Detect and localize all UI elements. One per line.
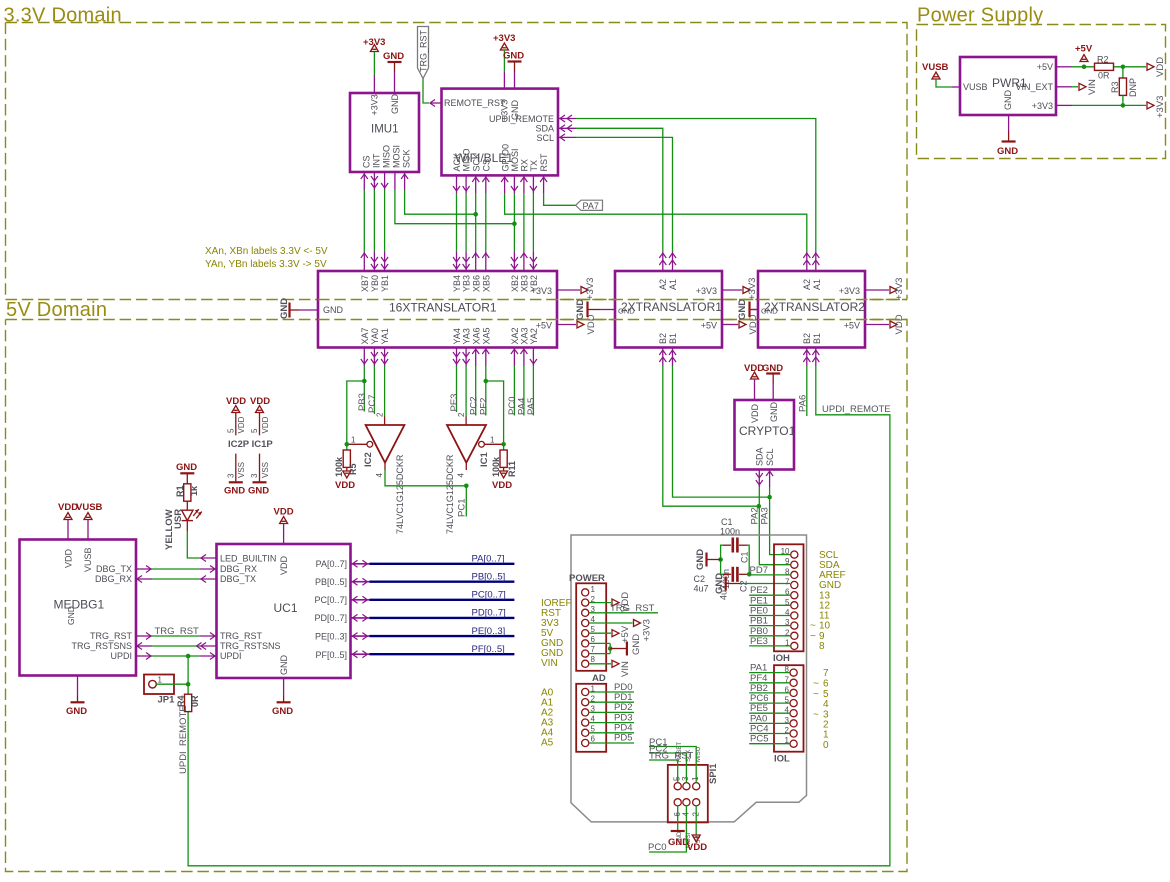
bus PC[0..7]	[369, 599, 514, 601]
pin IOL.3	[785, 716, 798, 727]
svg-text:DBG_TX: DBG_TX	[96, 564, 132, 574]
svg-text:YA4: YA4	[452, 328, 462, 344]
svg-text:8: 8	[819, 641, 825, 652]
wire GND pins 6,7	[589, 643, 610, 653]
svg-text:+5V: +5V	[1075, 44, 1093, 55]
pin WIFI.MISO stub	[463, 175, 470, 193]
svg-text:VDD: VDD	[687, 842, 707, 853]
supply VDD above MEDBG1	[58, 502, 78, 520]
wire JP1 to UPDI_REMOTE	[156, 683, 188, 685]
svg-text:4u7: 4u7	[694, 584, 709, 594]
labels IOL right	[813, 668, 829, 751]
svg-text:~: ~	[813, 689, 819, 700]
svg-text:PC0: PC0	[648, 842, 666, 853]
svg-text:4: 4	[457, 473, 466, 478]
pin IC2.4 output	[384, 463, 386, 470]
svg-text:+3V3: +3V3	[696, 286, 717, 296]
svg-text:PD[0..7]: PD[0..7]	[472, 608, 506, 619]
pin PWR1.VUSB stub	[952, 86, 960, 88]
svg-text:+3V3: +3V3	[370, 94, 380, 115]
svg-text:C1: C1	[721, 517, 733, 527]
supply VDD below R5	[335, 468, 355, 492]
wire TRG_RST net	[136, 633, 217, 640]
pin IOH.1	[785, 638, 798, 649]
ground GND below UC1	[272, 696, 293, 717]
svg-text:A1: A1	[812, 279, 822, 290]
svg-text:GND: GND	[66, 706, 87, 717]
pin 16XTR.GND stub	[299, 309, 318, 311]
wire IOH PB1	[749, 616, 791, 627]
IC IMU1	[350, 93, 419, 172]
svg-text:CS: CS	[482, 159, 492, 172]
wire AD PD5	[589, 733, 634, 744]
wire WIFI CS net	[485, 193, 487, 252]
svg-text:+3V3: +3V3	[585, 278, 596, 300]
svg-text:VUSB: VUSB	[922, 62, 949, 73]
junction SCK	[473, 212, 478, 217]
wire SDA to 2XTRANSLATOR1 A2	[576, 128, 663, 252]
svg-text:MISO: MISO	[382, 145, 392, 168]
bus PE[0..3]	[369, 635, 514, 637]
pin UC1.GND stub	[283, 678, 285, 696]
svg-text:JP1: JP1	[158, 695, 176, 706]
pin WIFI.RST stub	[540, 175, 547, 193]
supply VDD above CRYPTO1	[744, 363, 764, 379]
bus pin PC[0..7]	[351, 596, 370, 603]
svg-text:XAn, XBn labels 3.3V <- 5V: XAn, XBn labels 3.3V <- 5V	[205, 246, 328, 257]
svg-text:A2: A2	[802, 279, 812, 290]
pin WIFI.GPIO0 stub	[501, 175, 508, 193]
svg-text:GND: GND	[714, 573, 725, 594]
wire PF2 to IC1 pin1	[486, 381, 504, 444]
svg-text:PE3: PE3	[750, 636, 768, 647]
resistor R1	[175, 484, 199, 501]
svg-text:UC1: UC1	[274, 601, 298, 615]
bus PA[0..7]	[369, 563, 514, 565]
ground VSS of IC2P	[224, 454, 246, 497]
pin IOH.5	[785, 598, 798, 609]
svg-text:GND: GND	[272, 706, 293, 717]
svg-text:GND: GND	[224, 486, 245, 497]
pin 16XTR.+3V3 stub	[557, 289, 580, 291]
wire AD PD4	[589, 723, 634, 734]
pin IMU1.CS stub	[361, 172, 368, 190]
flag PA7	[576, 200, 603, 211]
svg-text:GND: GND	[618, 307, 635, 316]
capacitor C2	[694, 567, 749, 600]
wire WIFI MISO net	[465, 193, 467, 252]
svg-text:CS: CS	[362, 155, 372, 168]
pin IOL.8	[785, 665, 798, 676]
pin IC2.1 enable wire	[347, 443, 367, 445]
svg-text:PD[0..7]: PD[0..7]	[314, 613, 347, 623]
supply VIN arrow right	[1072, 79, 1098, 95]
wire IOH PE3	[749, 636, 791, 647]
svg-text:0: 0	[823, 740, 829, 751]
svg-text:PB[0..5]: PB[0..5]	[315, 577, 347, 587]
wire PC1 tail	[465, 486, 467, 517]
wire PA6 net	[806, 366, 808, 416]
pin PWR1.VIN_EXT stub	[1056, 86, 1072, 88]
wire MISO net	[384, 190, 386, 252]
bus PF[0..5]	[369, 653, 514, 655]
svg-text:1: 1	[591, 585, 596, 594]
svg-text:YB1: YB1	[380, 275, 390, 292]
svg-text:GND: GND	[390, 94, 400, 115]
supply +3V3 arrow right of 16XTR	[581, 278, 596, 300]
pin WIFI.REMOTE_RST stub with arrow	[430, 100, 442, 107]
junction PA3	[767, 495, 772, 500]
pin IMU1.MISO stub	[381, 172, 388, 190]
node 5V Domain frame	[6, 320, 908, 872]
svg-text:+3V3: +3V3	[894, 278, 905, 300]
svg-text:PC5: PC5	[750, 734, 768, 745]
bus pin PB[0..5]	[351, 578, 370, 585]
wire RST / TRG_RST	[589, 603, 658, 614]
ground GND of caps	[695, 549, 721, 570]
pin POWER.5	[582, 625, 596, 637]
svg-text:6: 6	[823, 679, 829, 690]
labels AD left	[541, 688, 554, 749]
svg-text:+3V3: +3V3	[1155, 96, 1166, 118]
resistor R4	[176, 694, 200, 711]
svg-text:GND: GND	[323, 305, 344, 315]
svg-text:3: 3	[227, 473, 236, 478]
svg-text:GND: GND	[631, 634, 642, 655]
wire IOREF to VDD	[589, 592, 631, 612]
wire UPDI_REMOTE net (long loop)	[188, 366, 890, 866]
svg-text:C2: C2	[739, 580, 749, 592]
supply VDD below R11	[492, 468, 512, 492]
svg-text:A5: A5	[541, 738, 554, 749]
IC 16XTRANSLATOR1	[318, 271, 557, 348]
ground GND between 16XTR and 2XTR1	[575, 299, 600, 320]
wire UPDI_REMOTE branch down	[187, 656, 189, 694]
wire SCK net to junction	[405, 190, 476, 214]
wire IOL PA1	[749, 663, 790, 674]
svg-text:+5V: +5V	[844, 321, 860, 331]
wire to IC2 input	[384, 366, 386, 417]
wire PC1 to SPI1.1	[649, 747, 696, 783]
svg-text:4: 4	[375, 473, 384, 478]
pin IOH.2	[785, 628, 798, 639]
IC UC1	[217, 544, 351, 678]
wire caps left rail	[721, 545, 723, 574]
supply VDD above UC1	[274, 507, 294, 524]
wire SPI1.2 to VDD	[695, 806, 697, 835]
svg-text:VSS: VSS	[237, 462, 246, 478]
svg-text:DBG_RX: DBG_RX	[220, 564, 257, 574]
wire TRG_RSTSNS net	[136, 643, 217, 650]
wire UPDI_REMOTE to 2XTRANSLATOR2 A1	[576, 119, 816, 253]
svg-text:5: 5	[250, 428, 259, 433]
pin 2XTR1.+3V3 stub	[722, 289, 742, 291]
wire IOL PA0	[749, 713, 790, 724]
supply VDD arrow right	[1147, 57, 1166, 77]
wire PA2 net from B2	[663, 366, 759, 506]
LED YELLOW USR	[164, 501, 202, 550]
svg-text:YB0: YB0	[370, 275, 380, 292]
pin MEDBG1.GND stub	[77, 676, 79, 697]
pin 2XTR2.+3V3 stub	[865, 289, 889, 291]
supply VDD of IC1P	[250, 396, 270, 435]
wire TX net	[532, 193, 534, 252]
supply +3V3 above IMU1	[363, 37, 385, 52]
bus pin PF[0..5]	[351, 651, 370, 658]
pin WIFI.SCK stub	[472, 175, 479, 193]
supply VDD of IC2P	[226, 396, 246, 435]
wire IOL PB2	[749, 683, 790, 694]
pin IMU1.MOSI stub	[394, 172, 396, 190]
svg-text:SCL: SCL	[765, 448, 775, 466]
svg-text:GND: GND	[737, 299, 748, 320]
bus pin PD[0..7]	[351, 614, 370, 621]
pin PWR1.GND stub	[1008, 115, 1010, 131]
pin WIFI.CS stub	[482, 175, 489, 193]
pin POWER.6	[582, 635, 596, 647]
svg-text:YB4: YB4	[452, 275, 462, 292]
svg-text:3: 3	[681, 776, 690, 781]
pin WIFI.TX stub	[530, 175, 537, 193]
junction R2 out	[1121, 65, 1126, 70]
svg-text:6: 6	[591, 635, 596, 644]
svg-text:1: 1	[691, 776, 700, 781]
svg-text:GND: GND	[997, 146, 1018, 157]
pin 16XTR.YB4 stub	[453, 252, 460, 271]
svg-text:A2: A2	[658, 279, 668, 290]
svg-text:VDD: VDD	[237, 416, 246, 433]
svg-text:PD2: PD2	[614, 702, 632, 713]
svg-text:IOL: IOL	[774, 754, 790, 765]
svg-text:GND: GND	[761, 307, 778, 316]
svg-text:VIN: VIN	[620, 661, 631, 677]
supply VUSB symbol	[922, 62, 949, 79]
svg-text:XB5: XB5	[482, 275, 492, 292]
svg-text:VUSB: VUSB	[83, 547, 93, 572]
pin 2XTR1.A1 stub	[669, 252, 676, 271]
svg-text:PC[0..7]: PC[0..7]	[472, 590, 506, 601]
svg-text:PA3: PA3	[760, 507, 771, 524]
pin CRYPTO1.SCL stub	[766, 470, 773, 488]
svg-text:1: 1	[158, 676, 163, 685]
junction JP1 wire	[186, 682, 191, 687]
IC 2XTRANSLATOR2	[758, 271, 865, 348]
pin 2XTR1.B2 stub	[659, 348, 666, 367]
svg-text:TRG_RSTSNS: TRG_RSTSNS	[71, 641, 132, 651]
svg-text:VDD: VDD	[261, 416, 270, 433]
svg-text:100k: 100k	[491, 456, 501, 477]
svg-text:100n: 100n	[720, 527, 740, 537]
svg-text:VIN: VIN	[541, 658, 558, 669]
svg-text:GND: GND	[1003, 90, 1013, 111]
ground GND below MEDBG1	[66, 696, 87, 717]
svg-text:GND: GND	[383, 51, 404, 62]
svg-text:XB6: XB6	[472, 275, 482, 292]
pin WIFI.GND stub	[514, 72, 516, 89]
svg-text:PC[0..7]: PC[0..7]	[314, 595, 347, 605]
labels POWER left	[541, 598, 572, 669]
svg-text:PA5: PA5	[526, 398, 537, 415]
pin IOH.3	[785, 618, 798, 629]
svg-text:USR: USR	[173, 509, 184, 529]
svg-text:B1: B1	[812, 333, 822, 344]
svg-text:PE3: PE3	[449, 394, 460, 412]
svg-text:+3V3: +3V3	[839, 286, 860, 296]
svg-text:7: 7	[591, 645, 596, 654]
svg-text:XB3: XB3	[520, 275, 530, 292]
svg-text:SCL: SCL	[536, 133, 554, 143]
pin 2XTR1.B1 stub	[669, 348, 676, 367]
svg-text:VIN: VIN	[1087, 79, 1098, 95]
wire ACK net	[456, 193, 458, 252]
pin IOH.7	[785, 578, 798, 589]
junction PB3 to IC2 enable	[362, 379, 367, 384]
svg-text:IC1: IC1	[479, 452, 490, 468]
svg-text:XA7: XA7	[360, 327, 370, 344]
svg-text:3.3V Domain: 3.3V Domain	[4, 5, 122, 27]
svg-text:SPI1: SPI1	[708, 763, 719, 784]
svg-text:A1: A1	[668, 279, 678, 290]
domain dashes through translator row	[318, 300, 907, 320]
svg-text:RX: RX	[520, 159, 530, 172]
pin POWER.1	[582, 585, 596, 596]
pin CRYPTO1.SDA stub	[756, 470, 763, 488]
svg-text:3: 3	[250, 473, 259, 478]
ground GND of POWER header	[610, 634, 642, 656]
pin PWR1.+3V3 stub	[1056, 104, 1072, 106]
svg-text:C1: C1	[740, 551, 750, 563]
svg-text:YA3: YA3	[462, 328, 472, 344]
wire +3V3 to IMU1	[373, 52, 375, 76]
junction PA2	[757, 504, 762, 509]
pin AD.3	[582, 705, 596, 717]
svg-text:GND: GND	[279, 655, 289, 676]
bus pin PA[0..7]	[351, 560, 370, 567]
svg-text:1: 1	[490, 436, 495, 445]
wire VUSB	[936, 79, 952, 87]
pin 16XTR.XB7 stub	[361, 252, 368, 271]
svg-text:8: 8	[591, 655, 596, 664]
svg-text:GND: GND	[279, 298, 290, 319]
svg-text:DNP: DNP	[1128, 78, 1138, 97]
junction MOSI	[512, 221, 517, 226]
junction PD7	[747, 572, 752, 577]
svg-text:R2: R2	[1097, 55, 1109, 65]
wire AD PD1	[589, 692, 634, 703]
pin 16XTR.XA5 stub	[482, 348, 489, 367]
pin IMU1.INT stub	[371, 172, 378, 190]
pin IC1.4 output	[465, 463, 467, 470]
wire RST to PA7 flag	[544, 193, 576, 205]
svg-text:10: 10	[781, 547, 790, 556]
pin 16XTR.YA0 stub	[371, 348, 378, 367]
svg-text:VDD: VDD	[1155, 57, 1166, 77]
pin IOL.1	[785, 736, 798, 747]
svg-text:R4: R4	[176, 695, 186, 707]
connector POWER	[569, 573, 606, 671]
pin AD.5	[582, 725, 596, 737]
wire SDA/PA2 vertical to IOH	[759, 487, 790, 565]
svg-text:~: ~	[813, 679, 819, 690]
svg-text:GPIO0: GPIO0	[501, 144, 511, 172]
pin IMU1.+3V3 stub	[373, 75, 375, 93]
svg-text:PE[0..3]: PE[0..3]	[472, 626, 506, 637]
bus PD[0..7]	[369, 617, 514, 619]
wire PC1 net from IC2 out to IC1 out	[385, 470, 466, 486]
junction PF2 to IC1 enable	[484, 379, 489, 384]
svg-text:GND: GND	[510, 100, 520, 121]
pin 16XTR.XA2 stub	[511, 348, 518, 367]
wire PA4 net	[523, 366, 525, 416]
wire IOL PC6	[749, 693, 790, 704]
svg-text:6: 6	[591, 735, 596, 744]
svg-text:5: 5	[227, 428, 236, 433]
svg-text:7: 7	[823, 668, 829, 679]
supply VDD arrow right of 2XTR2	[890, 314, 905, 334]
pin 16XTR.XB5 stub	[482, 252, 489, 271]
svg-text:+3V3: +3V3	[747, 278, 758, 300]
svg-text:YB3: YB3	[462, 275, 472, 292]
wire SCL to 2XTRANSLATOR1 A1	[576, 137, 673, 252]
connector SPI1	[668, 763, 719, 823]
wire IOH PE1	[749, 595, 791, 606]
wire WIFI SCK vertical	[475, 193, 477, 252]
junction IC1 enable/R11	[501, 442, 506, 447]
svg-text:+5V: +5V	[701, 321, 717, 331]
svg-text:IOH: IOH	[773, 653, 790, 664]
svg-text:YA1: YA1	[380, 328, 390, 344]
bus pin PE[0..3]	[351, 633, 370, 640]
pin 16XTR.XB3 stub	[520, 252, 527, 271]
svg-text:VDD: VDD	[64, 548, 74, 568]
svg-text:UPDI_REMOTE: UPDI_REMOTE	[822, 404, 891, 415]
svg-text:PC1: PC1	[457, 499, 468, 517]
svg-text:TX: TX	[529, 160, 539, 172]
svg-text:GND: GND	[695, 549, 706, 570]
svg-text:74LVC1G125DCKR: 74LVC1G125DCKR	[395, 454, 405, 534]
junction caps GND	[718, 557, 723, 562]
junction POWER GND	[608, 646, 613, 651]
pin CRYPTO1.GND stub	[772, 384, 774, 400]
pin 2XTR1.+5V stub	[722, 324, 738, 326]
wire IOL PF4	[749, 673, 790, 684]
supply VDD arrow right of 16XTR	[577, 314, 597, 334]
svg-text:+5V: +5V	[1037, 62, 1053, 72]
svg-text:VDD: VDD	[894, 314, 905, 334]
svg-text:VDD: VDD	[750, 403, 760, 423]
svg-text:2XTRANSLATOR2: 2XTRANSLATOR2	[764, 300, 865, 314]
resistor R2	[1095, 55, 1114, 81]
wire WIFI MOSI vertical	[513, 193, 515, 252]
svg-text:PF[0..5]: PF[0..5]	[315, 650, 347, 660]
svg-text:VIN_EXT: VIN_EXT	[1015, 82, 1053, 92]
wire SCL/PA3 vertical to IOH	[770, 487, 790, 555]
svg-text:VDD: VDD	[492, 480, 512, 491]
ground GND left of 16XTRANSLATOR1	[279, 298, 299, 319]
wire MOSI net to junction	[395, 190, 515, 224]
svg-text:XB7: XB7	[360, 275, 370, 292]
node 3.3V Domain frame	[6, 23, 908, 300]
pin POWER.8	[582, 655, 596, 667]
pin POWER.3	[582, 605, 596, 616]
pin SPI1.6	[673, 799, 682, 817]
ground GND2 of C2	[714, 573, 740, 594]
svg-text:GND: GND	[503, 51, 524, 62]
capacitor C1	[720, 517, 750, 589]
pin IOL.7	[785, 675, 798, 686]
svg-text:74LVC1G125DCKR: 74LVC1G125DCKR	[445, 454, 455, 534]
svg-text:PA[0..7]: PA[0..7]	[472, 554, 505, 565]
